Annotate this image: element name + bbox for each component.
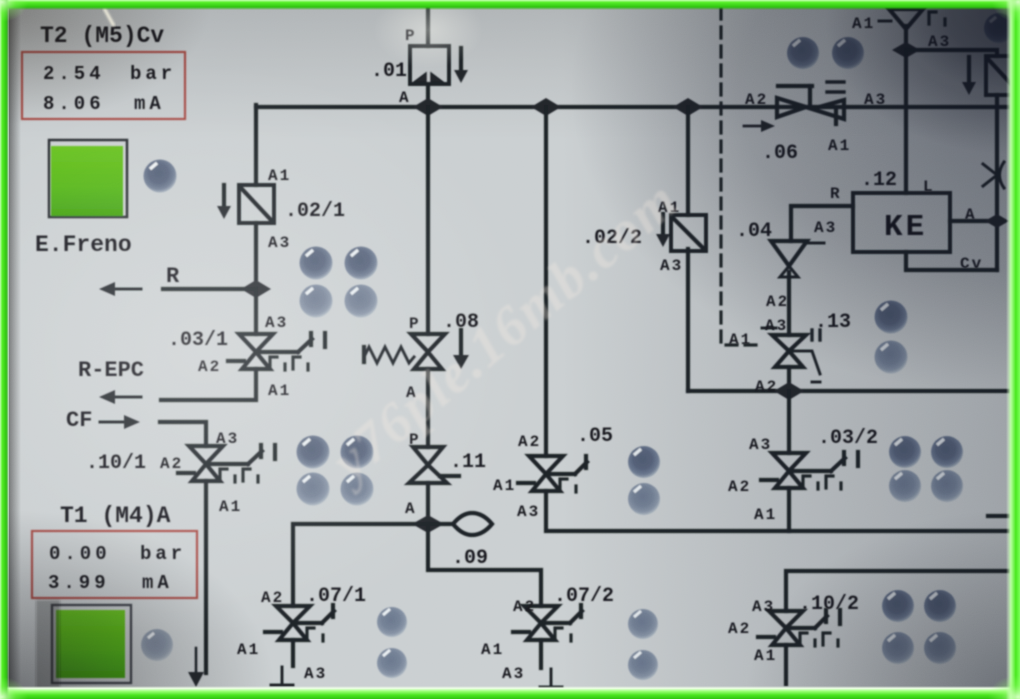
wire valve .03/2 A1 to return bus [787, 488, 791, 531]
label .04 [736, 220, 772, 243]
label .03/1 [168, 329, 228, 352]
wire bus to valve .08 [426, 107, 430, 334]
wire rail to valve .02/2 [686, 107, 690, 215]
lamp pair .02/1 b [345, 247, 378, 280]
pin A2 .10/2 [728, 620, 751, 638]
node A [412, 515, 444, 533]
label .10/1 [86, 452, 146, 475]
arrow exhaust .10/1 [188, 648, 204, 687]
wire KE R port to valve .04 [791, 206, 853, 241]
label .02/2 [582, 227, 642, 250]
label T1 (M4)A [60, 503, 171, 529]
lamp .10/2 d [924, 632, 956, 664]
valve .03/2 [761, 452, 858, 489]
pin A1 .02/1 [268, 167, 291, 185]
label .11 [450, 451, 486, 474]
lamp .07/2 b [628, 650, 658, 680]
wire node A down to valve .07/2 [428, 524, 541, 606]
lamp .10/1 c [297, 473, 330, 506]
wire valve .01 port A to bus [426, 84, 430, 107]
wire node A3 right to valve .02/3 [906, 50, 997, 56]
label E.Freno [35, 232, 132, 258]
pilot dashed line [721, 8, 762, 345]
label CF [66, 408, 92, 433]
pin A2 .07/1 [261, 589, 284, 607]
lamp .10/2 a [882, 590, 914, 622]
valve .04 check [771, 241, 824, 277]
lamp .10/1 a [297, 436, 330, 469]
wire bus A3 [688, 389, 1008, 393]
wire right column [995, 95, 999, 270]
lamp .05 a [628, 446, 660, 478]
wire .10/2 section top [786, 571, 1008, 611]
wire valve .05 A3 to return bus [546, 491, 1008, 531]
exhaust .07/2 [540, 669, 562, 687]
wire stub right edge [988, 514, 1008, 518]
exhaust .07/1 [271, 667, 293, 685]
lamp .07/1 b [377, 648, 407, 678]
valve .07/2 [513, 605, 582, 641]
orifice .09 [428, 513, 492, 535]
pin A2 .13 [755, 378, 778, 396]
lamp corner top right [984, 13, 1014, 43]
pin A .11 [405, 500, 417, 518]
border frame [0, 0, 1, 1]
label .10/2 [799, 593, 859, 616]
value 2.54 bar [43, 63, 176, 85]
lamp .06 a [787, 37, 819, 69]
arrow at valve .06 [744, 120, 775, 132]
wire bus to valve .02/1 [254, 105, 258, 185]
pin Cv KE [960, 255, 983, 273]
valve .02/3 exhaust arrow [962, 57, 976, 95]
pin A1 .07/1 [237, 641, 260, 659]
node R branch [241, 280, 271, 298]
label .07/2 [554, 585, 614, 608]
valve .02/1 exhaust arrow [217, 185, 231, 219]
wire valve .03/1 A1 to R-EPC [161, 369, 256, 400]
lamp .03/2 c [889, 470, 921, 502]
wire valve .10/2 A1 down [784, 645, 788, 684]
value 3.99 mA [48, 572, 173, 594]
label T2 (M5)Cv [40, 23, 164, 49]
valve .02/1 body [239, 185, 274, 223]
pin A2 .06 [745, 91, 768, 109]
value 0.00 bar [49, 543, 186, 565]
wire KE A port to right column [950, 219, 997, 223]
label .07/1 [306, 585, 366, 608]
valve .08 with spring [364, 334, 445, 369]
pin A3 .10/2 [752, 598, 775, 616]
label .01 [371, 60, 407, 83]
wire valve .07/1 A3 down [291, 640, 295, 666]
lamp pair .02/1 a [300, 247, 333, 280]
lamp .03/2 b [931, 436, 963, 468]
lamp E.Freno [144, 160, 177, 193]
lamp .07/2 a [628, 609, 658, 639]
wire node R to valve .03/1 [254, 289, 258, 334]
button T1 [52, 605, 131, 683]
pin A1 .06 [828, 137, 851, 155]
lamp .10/1 b [341, 436, 374, 469]
pin P .01 [405, 27, 417, 45]
lamp .07/1 a [377, 607, 407, 637]
lamp .13 a [875, 301, 908, 334]
label .05 [577, 425, 613, 448]
wire valve .02/2 A3 down to bus A3 [686, 249, 690, 391]
node bus/rail .02-2 [673, 98, 703, 116]
pin A3 .13 [765, 317, 788, 335]
pin L KE [923, 178, 935, 196]
lamp .10/1 d [341, 473, 374, 506]
node bus/valve .05 branch [531, 98, 561, 116]
valve .02/3 body [986, 56, 1013, 95]
wire valve .04 A2 to valve .13 [787, 272, 791, 335]
wire CF to valve .10/1 [160, 422, 206, 446]
pin A3 .07/1 [304, 665, 327, 683]
arrow R exit [99, 282, 141, 296]
label .12 [861, 169, 897, 192]
button E.Freno [49, 140, 127, 217]
valve .13 [762, 328, 820, 382]
pin A .08 [406, 384, 418, 402]
wire valve .02/1 A3 down to node R [254, 223, 258, 292]
wire KE Cv port [906, 252, 997, 270]
label .08 [443, 311, 479, 334]
pin A1 top right valve [852, 15, 875, 33]
valve .10/1 [178, 445, 275, 482]
pin A2 .04 [766, 293, 789, 311]
wire node A left to valve .07/1 [293, 524, 428, 606]
lamp .10/2 b [924, 590, 956, 622]
valve .05 [518, 456, 587, 492]
pin A .01 [399, 89, 411, 107]
node A3 top right [892, 42, 920, 58]
wire valve .11 A to node A [426, 483, 430, 524]
gauge box T1 [32, 531, 197, 598]
pin A KE [965, 206, 977, 224]
label KE [884, 210, 927, 245]
label .06 [762, 142, 798, 165]
pin A2 .05 [518, 433, 541, 451]
node KE A [985, 214, 1009, 228]
pin A1 .03/1 [268, 382, 291, 400]
valve .02/2 body [671, 215, 706, 251]
pin A3 .02/2 [660, 257, 683, 275]
pin P .11 [409, 431, 421, 449]
pin A3 .02/1 [268, 234, 291, 252]
wire valve .10/1 A1 down [204, 481, 208, 673]
lamp .13 b [875, 341, 908, 374]
pin A3 .07/2 [502, 665, 525, 683]
node bus/valve .01 [413, 98, 443, 116]
pin A1 .05 [493, 477, 516, 495]
valve .02/2 exhaust arrow [656, 214, 670, 247]
valve .10/2 [758, 610, 840, 646]
pin A2 .03/2 [728, 478, 751, 496]
pin A2 .03/1 [198, 358, 221, 376]
pin A3 .10/1 [216, 430, 239, 448]
label .09 [452, 547, 488, 570]
pin A2 .07/2 [513, 598, 536, 616]
wire main bus P [256, 105, 1008, 109]
wire valve .08 A to valve .11 [426, 369, 430, 447]
wire P supply into valve .01 [426, 7, 430, 46]
pin A1 .10/2 [754, 647, 777, 665]
arrow at valve .08 [453, 330, 469, 369]
pin A1 .07/2 [481, 641, 504, 659]
arrow CF entry [100, 415, 140, 429]
pin P .08 [409, 315, 421, 333]
pin R KE [830, 185, 842, 203]
wire valve .13 A2 to node [787, 367, 791, 391]
label .03/2 [818, 427, 878, 450]
label R [166, 264, 180, 289]
value 8.06 mA [43, 93, 165, 115]
wire R branch [163, 287, 256, 291]
pin A3 .05 [517, 503, 540, 521]
lamp .03/2 a [889, 436, 921, 468]
pin A1 .13 [729, 331, 752, 349]
wire bus to valve .05 [544, 107, 548, 456]
valve .06 on bus [777, 82, 844, 124]
valve .07/1 [265, 605, 334, 641]
pin A1 .10/1 [219, 498, 242, 516]
wire node down to valve .03/2 [787, 391, 791, 453]
lamp .03/2 d [931, 470, 963, 502]
lamp T1 button [141, 629, 173, 661]
KE box .12 [853, 193, 950, 252]
node A2 on bus A3 [774, 382, 804, 400]
wire node to KE L port [904, 50, 908, 193]
lamp .05 b [628, 483, 660, 515]
lamp .06 b [832, 37, 864, 69]
pin A3 .03/2 [749, 436, 772, 454]
left bezel shadow [9, 7, 21, 688]
valve top-right A1 [879, 9, 945, 50]
check valve on right column [983, 162, 1004, 188]
pin A1 .02/2 [658, 199, 681, 217]
valve .03/1 [228, 333, 325, 370]
lamp .10/2 c [882, 632, 914, 664]
arrow R-EPC exit [99, 390, 141, 404]
valve .01 exhaust arrow [454, 48, 468, 83]
gauge box T2 [22, 52, 185, 119]
pin A3 .06 [864, 91, 887, 109]
lamp pair .02/1 c [300, 285, 333, 318]
pin A1 .03/2 [754, 506, 777, 524]
pin A3 .04 [814, 219, 837, 237]
valve .01 body [410, 46, 449, 84]
label .02/1 [285, 200, 345, 223]
pin A3 .03/1 [265, 314, 288, 332]
label R-EPC [78, 358, 144, 383]
lamp pair .02/1 d [345, 285, 378, 318]
pin A2 .10/1 [160, 455, 183, 473]
pin A3 top right node [928, 33, 951, 51]
valve .11 [409, 447, 459, 483]
wire valve .07/2 A3 down [539, 640, 543, 668]
label .13 [815, 311, 851, 334]
